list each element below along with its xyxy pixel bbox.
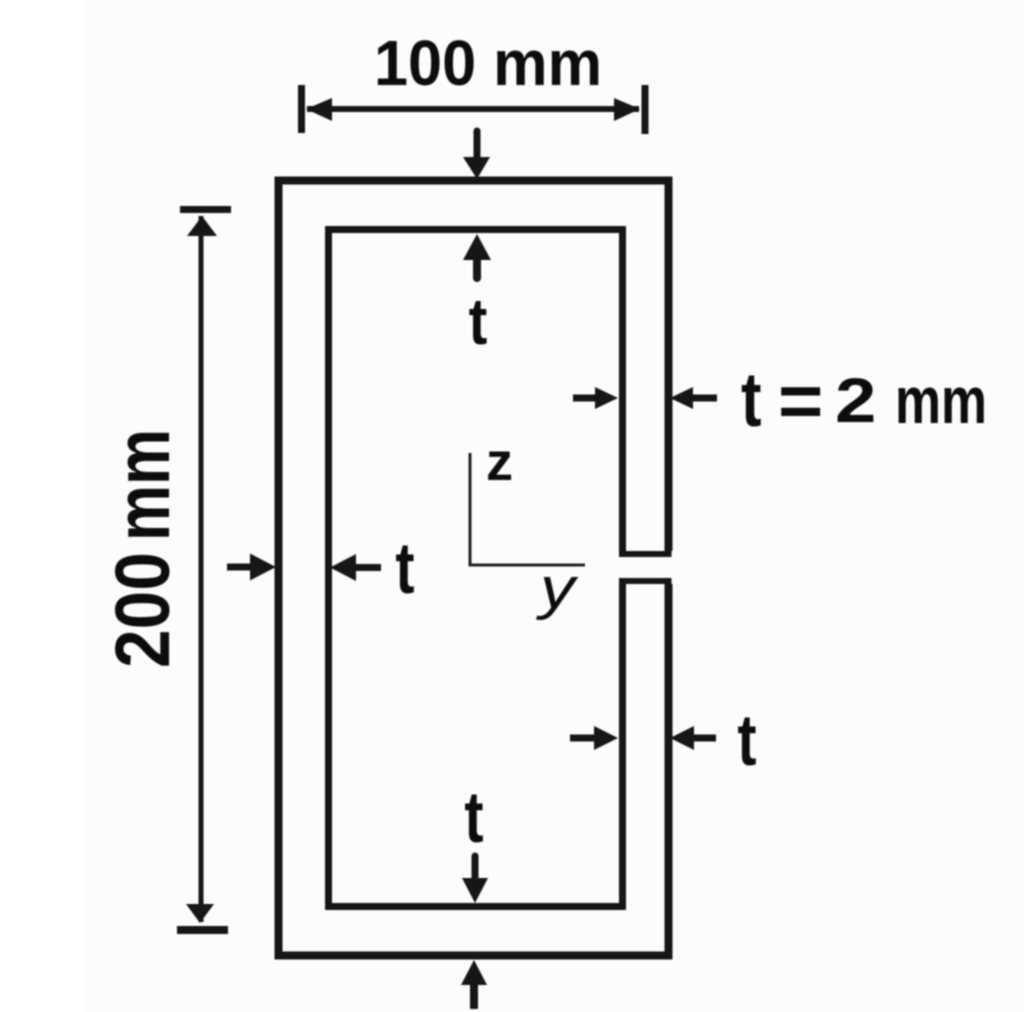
slit upper cap [619,551,672,557]
arrow pair at left wall [227,564,254,571]
arrow pair at lower right wall [570,735,597,742]
arrow to outer top wall [474,131,481,160]
inner boundary of box section (right side slit gap) [329,230,623,907]
slit lower cap [619,578,672,584]
svg-text:mm: mm [100,429,186,541]
svg-text:mm: mm [895,363,987,437]
svg-text:t: t [737,700,756,781]
svg-text:z: z [486,432,513,492]
svg-text:2: 2 [835,365,876,435]
dimension line 100 mm [307,106,639,112]
top extension tick [180,206,231,213]
svg-text:200: 200 [100,552,186,668]
right arrowhead [614,98,640,121]
arrow to inner top wall [473,257,481,278]
right extension tick [642,85,649,134]
svg-text:t: t [464,777,483,858]
coordinate axis y [469,564,586,567]
dimension line 200 mm [199,216,204,922]
svg-text:t: t [395,528,414,609]
bottom arrowhead [186,904,214,923]
svg-text:t: t [741,356,762,442]
top arrowhead [187,216,217,236]
arrow to outer bottom wall [470,982,478,1009]
svg-text:t: t [469,285,488,358]
coordinate axis z [469,453,472,566]
left extension tick [298,85,305,133]
svg-text:=: = [778,360,823,444]
left arrowhead [306,98,332,121]
svg-text:100 mm: 100 mm [374,27,602,99]
bottom extension tick [177,926,228,934]
arrow to inner bottom wall [472,856,479,880]
outer boundary of box section (right side slit gap) [279,181,669,956]
svg-text:y: y [536,555,579,620]
arrow pair at right wall, t = 2 mm [573,395,599,402]
